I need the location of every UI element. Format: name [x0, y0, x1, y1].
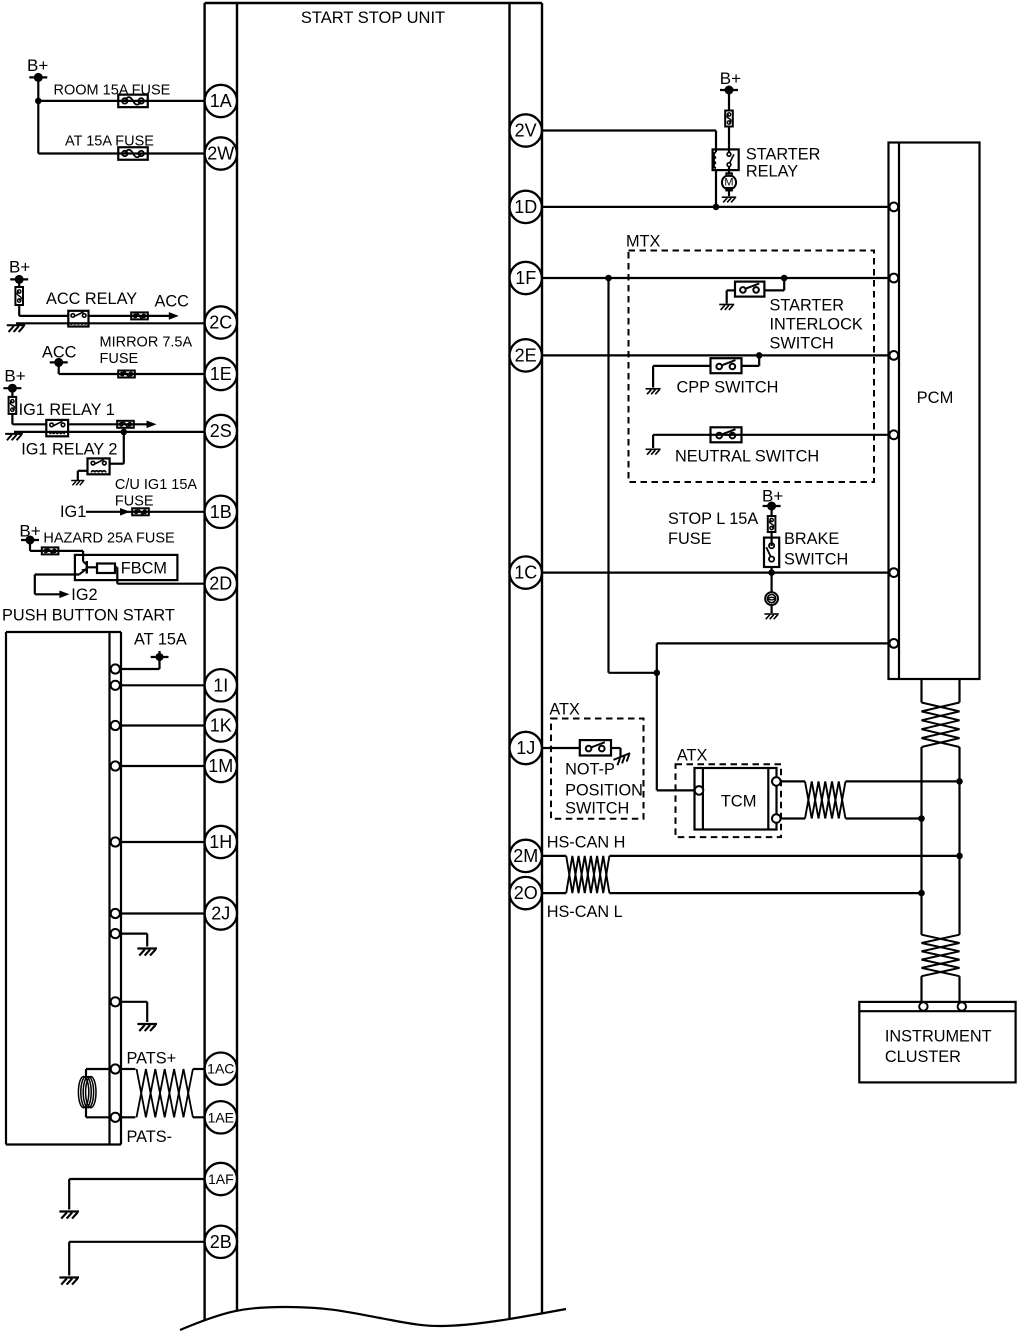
svg-text:PCM: PCM — [917, 389, 954, 407]
svg-text:HAZARD 25A FUSE: HAZARD 25A FUSE — [43, 531, 175, 547]
svg-text:B+: B+ — [27, 56, 48, 75]
svg-text:B+: B+ — [4, 367, 25, 386]
svg-text:B+: B+ — [9, 258, 30, 277]
svg-text:2E: 2E — [515, 345, 537, 365]
svg-text:STARTER: STARTER — [746, 146, 820, 164]
svg-text:START STOP UNIT: START STOP UNIT — [301, 9, 445, 27]
svg-text:ATX: ATX — [549, 701, 580, 719]
svg-text:INTERLOCK: INTERLOCK — [770, 316, 863, 334]
svg-text:2M: 2M — [513, 846, 538, 866]
svg-text:1D: 1D — [514, 197, 537, 217]
svg-text:ROOM 15A FUSE: ROOM 15A FUSE — [54, 82, 171, 98]
svg-text:2J: 2J — [211, 904, 230, 924]
svg-text:2S: 2S — [210, 421, 232, 441]
svg-text:M: M — [724, 177, 733, 189]
svg-text:IG1 RELAY 2: IG1 RELAY 2 — [21, 441, 117, 459]
svg-text:TCM: TCM — [721, 793, 757, 811]
svg-text:AT 15A: AT 15A — [134, 631, 187, 649]
svg-text:2O: 2O — [514, 883, 538, 903]
svg-text:PUSH BUTTON START: PUSH BUTTON START — [2, 607, 175, 625]
svg-text:ATX: ATX — [677, 746, 708, 764]
svg-text:INSTRUMENT: INSTRUMENT — [885, 1028, 992, 1046]
svg-text:HS-CAN H: HS-CAN H — [547, 834, 626, 852]
svg-text:IG2: IG2 — [71, 586, 97, 604]
svg-text:1H: 1H — [209, 832, 232, 852]
svg-text:PATS-: PATS- — [127, 1128, 173, 1146]
svg-text:FUSE: FUSE — [100, 351, 139, 367]
svg-text:2D: 2D — [209, 574, 232, 594]
svg-text:1E: 1E — [210, 364, 232, 384]
svg-text:SWITCH: SWITCH — [784, 551, 848, 569]
svg-text:MIRROR 7.5A: MIRROR 7.5A — [100, 334, 193, 350]
svg-text:2W: 2W — [207, 144, 234, 164]
svg-text:RELAY: RELAY — [746, 163, 798, 181]
svg-text:MTX: MTX — [626, 233, 661, 251]
svg-text:IG1 RELAY 1: IG1 RELAY 1 — [19, 401, 115, 419]
svg-text:NOT-P: NOT-P — [565, 761, 615, 779]
svg-text:HS-CAN L: HS-CAN L — [547, 903, 623, 921]
svg-text:2C: 2C — [209, 313, 232, 333]
svg-text:1B: 1B — [210, 502, 232, 522]
svg-text:2V: 2V — [515, 121, 537, 141]
svg-text:FBCM: FBCM — [121, 560, 167, 578]
svg-text:IG1: IG1 — [60, 503, 86, 521]
svg-text:1A: 1A — [210, 91, 232, 111]
svg-text:STARTER: STARTER — [770, 297, 844, 315]
svg-text:STOP L 15A: STOP L 15A — [668, 510, 758, 528]
svg-text:PATS+: PATS+ — [127, 1050, 177, 1068]
svg-text:SWITCH: SWITCH — [770, 335, 834, 353]
svg-text:1AF: 1AF — [208, 1171, 234, 1187]
svg-text:ACC: ACC — [155, 293, 190, 311]
svg-text:C/U IG1 15A: C/U IG1 15A — [115, 477, 198, 493]
svg-text:1I: 1I — [213, 675, 228, 695]
svg-text:CLUSTER: CLUSTER — [885, 1048, 961, 1066]
svg-text:FUSE: FUSE — [668, 530, 712, 548]
svg-text:B+: B+ — [720, 69, 741, 88]
svg-text:B+: B+ — [19, 522, 40, 541]
svg-text:1F: 1F — [515, 268, 536, 288]
svg-text:POSITION: POSITION — [565, 782, 643, 800]
svg-text:NEUTRAL SWITCH: NEUTRAL SWITCH — [675, 448, 819, 466]
svg-text:BRAKE: BRAKE — [784, 530, 839, 548]
svg-text:CPP SWITCH: CPP SWITCH — [677, 379, 779, 397]
svg-text:SWITCH: SWITCH — [565, 800, 629, 818]
svg-text:FUSE: FUSE — [115, 494, 154, 510]
svg-text:2B: 2B — [210, 1232, 232, 1252]
svg-text:ACC RELAY: ACC RELAY — [46, 290, 137, 308]
svg-text:1K: 1K — [210, 716, 232, 736]
svg-text:1AE: 1AE — [208, 1109, 234, 1125]
svg-text:1M: 1M — [208, 756, 233, 776]
svg-text:1J: 1J — [516, 738, 535, 758]
svg-text:1C: 1C — [514, 563, 537, 583]
svg-text:1AC: 1AC — [207, 1061, 234, 1077]
svg-text:B+: B+ — [762, 487, 783, 506]
